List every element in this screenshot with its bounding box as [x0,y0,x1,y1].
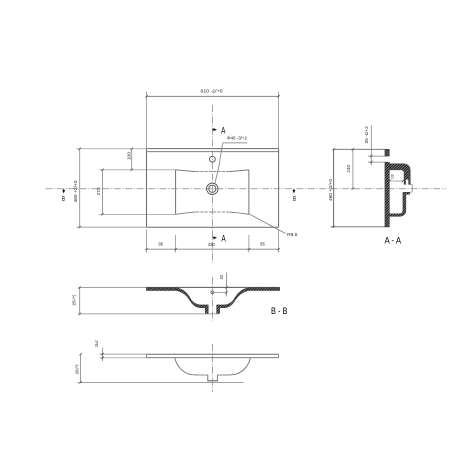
svg-text:A: A [221,125,225,135]
svg-text:25 -1/+2: 25 -1/+2 [364,126,369,144]
svg-text:610 -2/+0: 610 -2/+0 [201,89,224,94]
svg-text:18±2: 18±2 [94,340,99,347]
svg-text:420: 420 [208,242,216,247]
svg-text:Φ46 -3/+2: Φ46 -3/+2 [227,135,248,140]
svg-text:A: A [221,233,225,243]
svg-text:B - B: B - B [271,306,287,316]
svg-text:240: 240 [346,164,351,172]
svg-text:180-/+5: 180-/+5 [71,294,76,306]
svg-text:R8.5: R8.5 [287,232,298,237]
svg-text:B: B [62,194,65,203]
svg-text:B: B [293,194,296,203]
svg-text:95: 95 [159,241,164,246]
svg-text:100: 100 [126,151,131,160]
svg-text:180-/+5: 180-/+5 [74,364,79,375]
svg-text:110: 110 [390,174,395,179]
svg-text:A - A: A - A [385,235,402,245]
svg-text:460 +2/+0: 460 +2/+0 [328,178,333,201]
svg-text:270: 270 [96,187,101,196]
svg-text:32: 32 [219,274,224,279]
svg-text:460 +2/+0: 460 +2/+0 [73,180,78,203]
svg-text:95: 95 [260,241,265,246]
